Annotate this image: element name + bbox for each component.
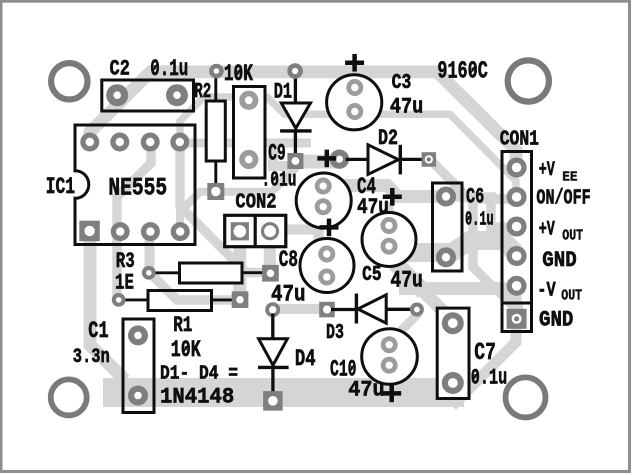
- svg-text:0.1u: 0.1u: [150, 56, 188, 82]
- svg-text:C3: C3: [392, 72, 412, 95]
- svg-text:C1: C1: [88, 318, 108, 345]
- svg-text:10K: 10K: [224, 61, 253, 87]
- svg-text:1E: 1E: [115, 269, 134, 295]
- svg-text:D4: D4: [295, 347, 316, 373]
- svg-text:D1- D4 =: D1- D4 =: [160, 362, 238, 384]
- svg-text:CON1: CON1: [500, 128, 539, 152]
- svg-text:R1: R1: [173, 312, 192, 338]
- svg-text:OUT: OUT: [561, 287, 582, 305]
- svg-text:47u: 47u: [390, 268, 423, 294]
- svg-text:C2: C2: [110, 55, 130, 81]
- svg-text:C9: C9: [268, 141, 285, 167]
- svg-text:D2: D2: [378, 126, 398, 151]
- svg-text:C5: C5: [362, 263, 382, 287]
- svg-text:EE: EE: [562, 170, 577, 186]
- svg-text:47u: 47u: [348, 376, 384, 402]
- svg-text:IC1: IC1: [46, 174, 75, 200]
- svg-text:-V: -V: [537, 279, 556, 302]
- svg-text:C6: C6: [466, 183, 484, 209]
- svg-text:47u: 47u: [271, 282, 306, 308]
- svg-text:47u: 47u: [390, 94, 423, 120]
- svg-text:9160C: 9160C: [437, 59, 487, 86]
- svg-text:C8: C8: [279, 247, 298, 273]
- svg-text:47u: 47u: [357, 194, 389, 220]
- svg-text:D1: D1: [274, 79, 292, 104]
- svg-text:NE555: NE555: [108, 176, 167, 203]
- svg-text:ON/OFF: ON/OFF: [536, 188, 590, 211]
- svg-text:GND: GND: [542, 248, 576, 273]
- svg-text:D3: D3: [326, 321, 344, 345]
- svg-text:10K: 10K: [171, 337, 202, 364]
- svg-text:R2: R2: [194, 80, 211, 104]
- svg-text:CON2: CON2: [235, 191, 276, 215]
- svg-text:0.1u: 0.1u: [465, 209, 494, 231]
- svg-text:3.3n: 3.3n: [73, 346, 110, 369]
- svg-text:+V: +V: [539, 159, 556, 182]
- svg-text:+V: +V: [539, 219, 556, 242]
- svg-text:0.1u: 0.1u: [471, 365, 507, 391]
- svg-text:C7: C7: [474, 340, 496, 367]
- svg-text:1N4148: 1N4148: [160, 384, 234, 410]
- svg-text:OUT: OUT: [562, 227, 583, 245]
- svg-text:GND: GND: [539, 307, 573, 332]
- svg-text:.01u: .01u: [262, 168, 297, 192]
